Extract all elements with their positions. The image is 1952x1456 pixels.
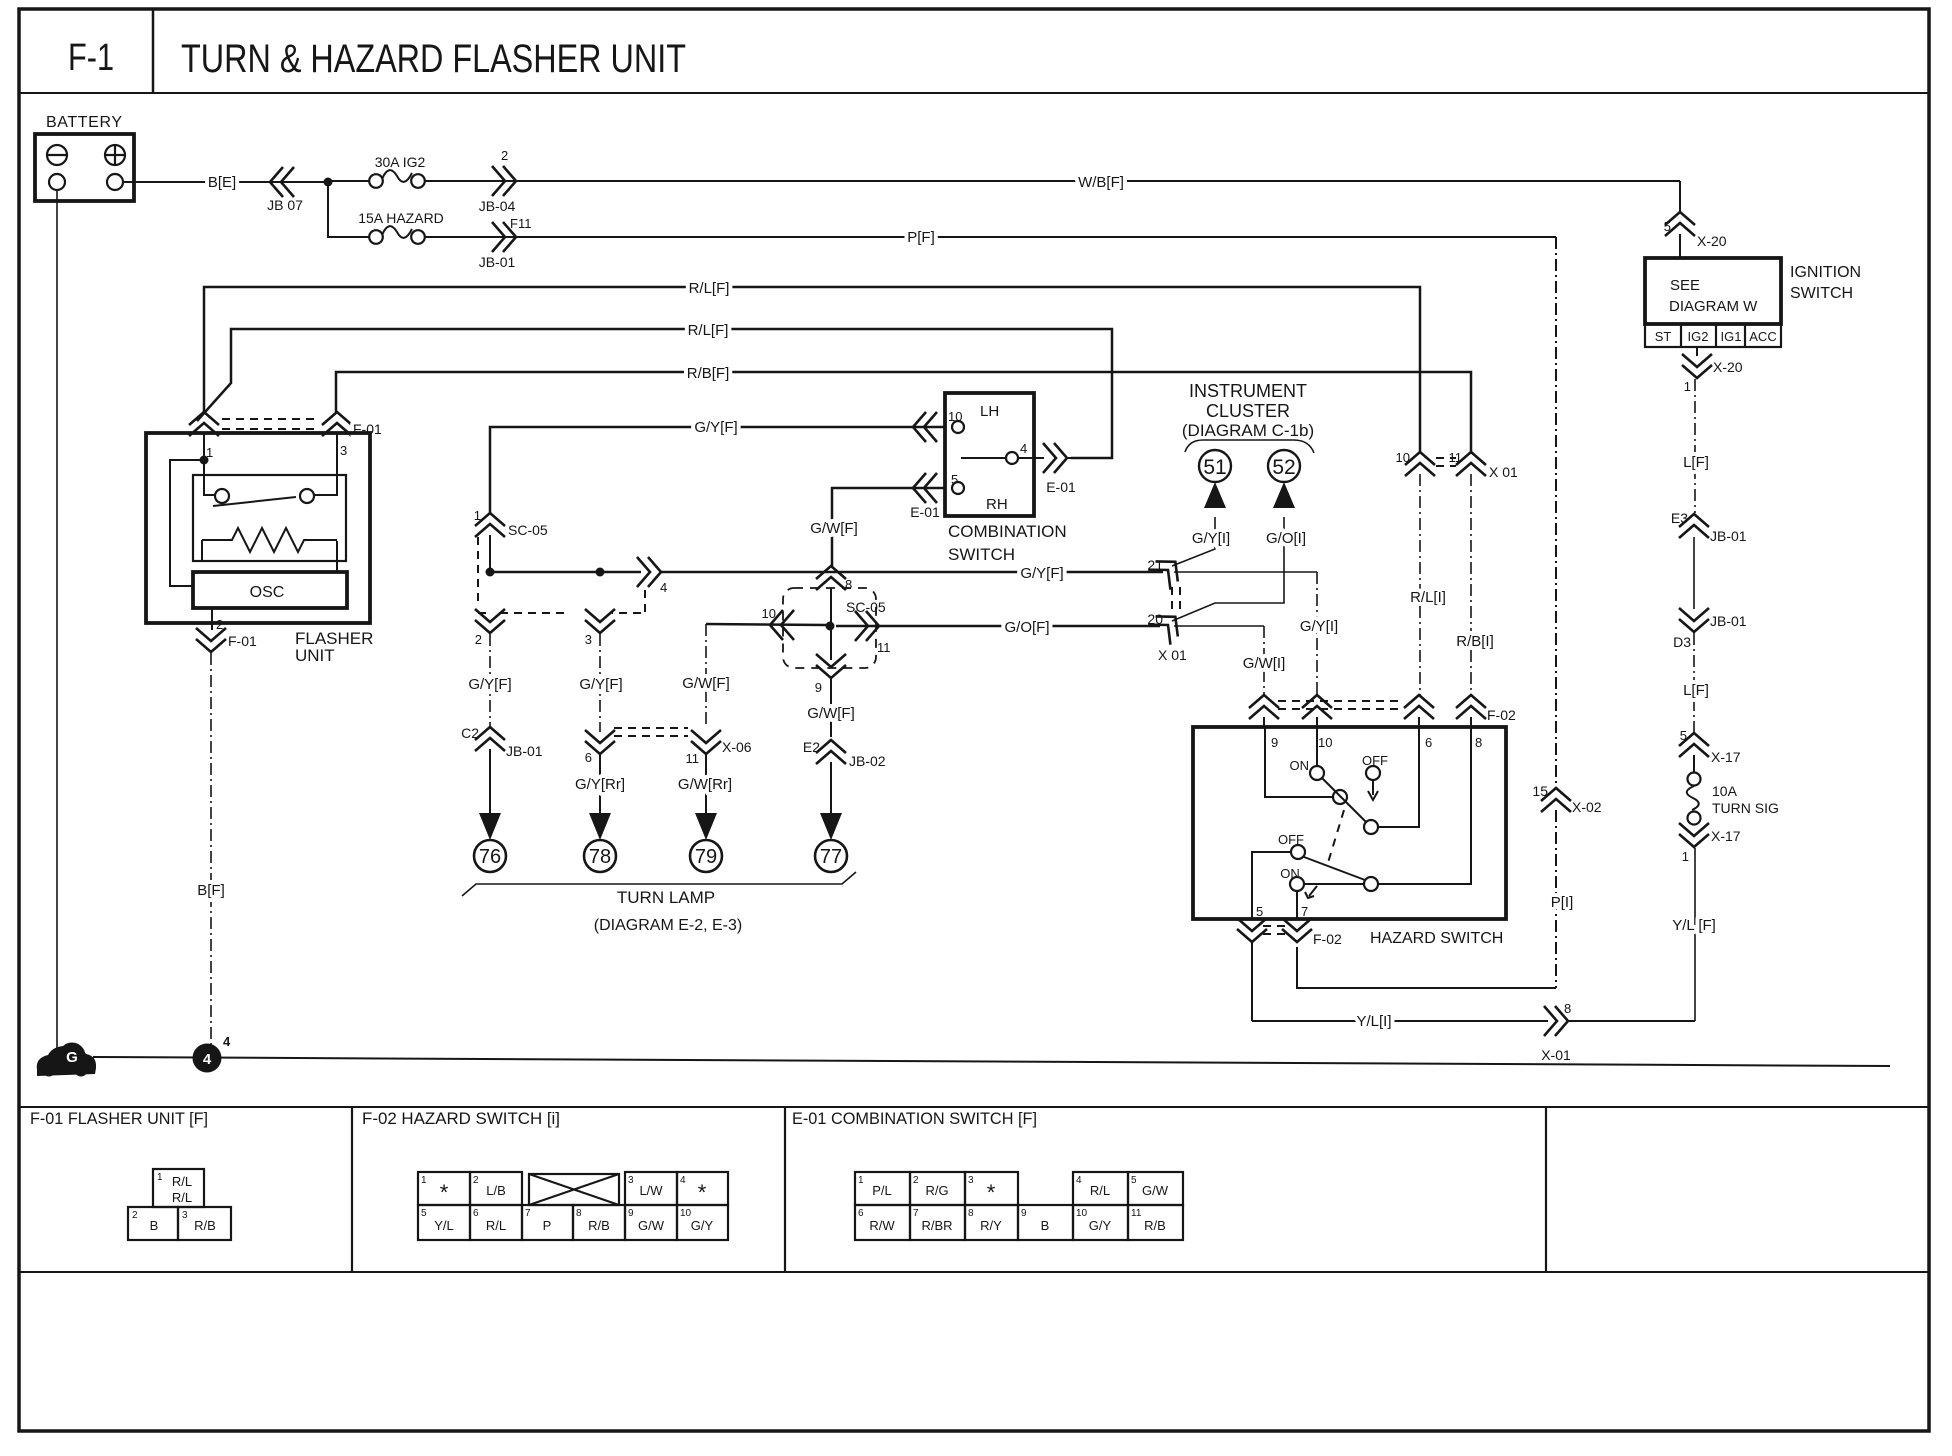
dashed link pins 2-3 [500, 612, 570, 614]
svg-text:9: 9 [1021, 1208, 1027, 1219]
connector JB-04 [492, 166, 516, 196]
svg-text:3: 3 [585, 632, 592, 647]
fuse 30A IG2 [369, 170, 425, 188]
svg-text:1: 1 [858, 1175, 864, 1186]
svg-text:R/L[F]: R/L[F] [688, 322, 729, 339]
E-01 connector pin10 cell [1073, 1205, 1128, 1240]
wire P drop to hazard switch [1555, 237, 1557, 788]
svg-text:5: 5 [1131, 1175, 1137, 1186]
F-01 connector pin3 cell [178, 1207, 231, 1240]
wire pin4 out [1018, 457, 1044, 459]
svg-text:R/B: R/B [588, 1218, 610, 1233]
svg-text:G/Y[F]: G/Y[F] [694, 419, 737, 436]
svg-text:10: 10 [1076, 1208, 1088, 1219]
connector JB 07 [270, 167, 294, 197]
wire G/Y[Rr] to lamp 78 [599, 755, 601, 814]
svg-text:7: 7 [1301, 904, 1308, 919]
hazard switch SW box [1193, 727, 1506, 919]
relay contact right [300, 489, 314, 503]
wire pin9 stub [1263, 717, 1265, 727]
svg-text:SWITCH: SWITCH [948, 545, 1015, 564]
wire pin1 to relay contact [204, 433, 214, 495]
svg-text:R/L[F]: R/L[F] [689, 280, 730, 297]
svg-text:G/O[I]: G/O[I] [1266, 530, 1306, 547]
comb switch wiper line [961, 457, 1005, 459]
node lamp 76 [474, 840, 506, 872]
label IGNITION SWITCH [1790, 264, 1861, 302]
wire pin5 to Y/L[I] [1251, 943, 1253, 1021]
dashed link pins 5-7 [1263, 926, 1287, 934]
connector 10 X-01 upper [1405, 452, 1435, 476]
wire G/Y[I] diagonal to cluster 51 [1172, 517, 1215, 566]
svg-text:(DIAGRAM C-1b): (DIAGRAM C-1b) [1182, 421, 1314, 440]
wire G/O[I] diagonal to cluster 52 [1172, 517, 1284, 621]
E-01 connector pin5 cell [1128, 1172, 1183, 1205]
svg-text:4: 4 [660, 580, 667, 595]
connector 5 X-20 [1665, 212, 1695, 236]
flasher relay box [193, 475, 346, 561]
indicator lamp 52 [1268, 450, 1300, 482]
wire Y/L[I] to fuse column [1567, 1020, 1695, 1022]
svg-text:*: * [698, 1180, 707, 1205]
wire comb pin5 down to splice [832, 488, 945, 566]
svg-text:P[F]: P[F] [907, 229, 935, 246]
svg-text:*: * [440, 1180, 449, 1205]
F-02 connector pin7 cell [522, 1205, 573, 1240]
wire pin4 to R/L riser [1066, 457, 1112, 459]
svg-text:JB-02: JB-02 [849, 753, 886, 769]
svg-text:F-02 HAZARD SWITCH [i]: F-02 HAZARD SWITCH [i] [362, 1109, 560, 1128]
dashed connector guide left [478, 537, 492, 613]
table divider 3 [1545, 1107, 1547, 1272]
dashed link 21-20 [1172, 587, 1180, 612]
connector F-02 pin7 chevron [1282, 918, 1312, 942]
wire to splice bus [489, 535, 491, 572]
hazard contact ON bottom [1290, 877, 1304, 891]
hazard contact top-end [1364, 820, 1378, 834]
ground line [93, 1057, 1890, 1066]
svg-text:1: 1 [474, 508, 481, 523]
hazard contact OFF top [1366, 766, 1380, 780]
header divider [152, 9, 155, 93]
svg-text:G/W[I]: G/W[I] [1243, 655, 1286, 672]
turn lamp bracket [462, 872, 856, 896]
svg-text:P/L: P/L [872, 1183, 892, 1198]
wire resistor left lead [201, 540, 203, 560]
connector F-02 pin9 chevron [1249, 695, 1279, 719]
E-01 connector pin2 cell [910, 1172, 965, 1205]
oscillator OSC box [193, 572, 347, 608]
connector pin3 chevron [585, 609, 615, 633]
connector 21 X-01 [1148, 552, 1186, 590]
svg-text:2: 2 [501, 148, 508, 163]
hazard bottom arm [1304, 857, 1365, 880]
wire branch to hazard fuse [328, 182, 369, 237]
dashed link 6 to X-06 [614, 728, 688, 736]
svg-text:5: 5 [421, 1208, 427, 1219]
svg-text:B[F]: B[F] [197, 882, 225, 899]
svg-text:2: 2 [473, 1175, 479, 1186]
table divider 2 [784, 1107, 786, 1272]
wire R/B[F] flasher pin3 to hazard pin8 [336, 372, 1471, 454]
svg-text:8: 8 [1475, 735, 1482, 750]
wire into fuse [1693, 755, 1695, 772]
connector 1 SC-05 [475, 513, 505, 537]
fuse 15A HAZARD [369, 226, 425, 244]
svg-text:6: 6 [585, 750, 592, 765]
F-02 connector pin9 cell [625, 1205, 677, 1240]
svg-text:R/BR: R/BR [921, 1218, 952, 1233]
svg-text:SWITCH: SWITCH [1790, 285, 1853, 302]
svg-text:X-01: X-01 [1541, 1047, 1571, 1063]
wire B[F] flasher ground lead [210, 653, 212, 1047]
svg-text:(DIAGRAM E-2, E-3): (DIAGRAM E-2, E-3) [594, 917, 742, 934]
instrument cluster brace [1185, 440, 1314, 453]
wire pin10 internal [1316, 727, 1318, 765]
svg-text:L/B: L/B [486, 1183, 506, 1198]
F-02 connector pin5 cell [418, 1205, 470, 1240]
svg-text:JB-01: JB-01 [506, 743, 543, 759]
wire OSC to pin 2 [211, 608, 213, 630]
svg-text:X-02: X-02 [1572, 799, 1602, 815]
arrow to 79 [695, 813, 717, 840]
wire ON to end bottom [1304, 883, 1364, 885]
node lamp 78 [584, 840, 616, 872]
svg-text:X-17: X-17 [1711, 828, 1741, 844]
connector F-02 pin8 chevron [1456, 695, 1486, 719]
wire G/W[Rr] to lamp 79 [705, 755, 707, 814]
svg-text:E-01 COMBINATION SWITCH [F]: E-01 COMBINATION SWITCH [F] [792, 1109, 1037, 1128]
svg-text:3: 3 [340, 443, 347, 458]
battery box [35, 134, 134, 201]
svg-text:F-1: F-1 [68, 37, 114, 79]
svg-text:2: 2 [475, 632, 482, 647]
svg-text:G/Y[I]: G/Y[I] [1192, 530, 1230, 547]
svg-text:P: P [543, 1218, 552, 1233]
svg-text:UNIT: UNIT [295, 646, 335, 665]
svg-text:G/O[F]: G/O[F] [1005, 619, 1050, 636]
svg-text:1: 1 [157, 1172, 163, 1183]
svg-text:51: 51 [1203, 456, 1226, 479]
F-02 connector pin1 cell [418, 1172, 470, 1205]
header band bottom rule [19, 92, 1929, 94]
arrow to 77 [820, 813, 842, 840]
wire G/Y[F] front left turn [489, 634, 491, 727]
svg-text:DIAGRAM W: DIAGRAM W [1669, 298, 1758, 315]
svg-text:E2: E2 [803, 739, 820, 755]
svg-text:F11: F11 [510, 216, 531, 231]
svg-text:R/L: R/L [172, 1174, 192, 1189]
svg-text:G/W[F]: G/W[F] [682, 675, 730, 692]
svg-text:1: 1 [1684, 379, 1691, 394]
E-01 connector pin7 cell [910, 1205, 965, 1240]
svg-text:R/B: R/B [194, 1218, 216, 1233]
wire pin9 internal [1265, 727, 1333, 797]
connector X-17 1 [1679, 823, 1709, 847]
E-01 connector pin4 cell [1073, 1172, 1128, 1205]
svg-text:JB-04: JB-04 [479, 198, 516, 214]
svg-text:R/W: R/W [869, 1218, 895, 1233]
svg-text:8: 8 [576, 1208, 582, 1219]
connector 11 X-06 [691, 730, 721, 754]
svg-text:INSTRUMENT: INSTRUMENT [1189, 381, 1307, 401]
svg-text:F-02: F-02 [1313, 931, 1342, 947]
svg-text:X-17: X-17 [1711, 749, 1741, 765]
battery negative terminal symbol [47, 145, 67, 165]
connector 20 X-01 [1148, 607, 1186, 645]
battery positive terminal symbol [105, 145, 125, 165]
wire pin8 stub [1470, 717, 1472, 727]
svg-text:B: B [150, 1218, 159, 1233]
wire L[F] upper [1694, 379, 1696, 513]
svg-text:SEE: SEE [1670, 277, 1700, 294]
svg-text:1: 1 [421, 1175, 427, 1186]
connector 6 chevron [585, 730, 615, 754]
svg-text:11: 11 [877, 640, 891, 655]
hazard contact OFF bottom [1291, 845, 1305, 859]
svg-text:X 01: X 01 [1158, 647, 1187, 663]
svg-text:5: 5 [1256, 904, 1263, 919]
wire G/Y[I] to hazard pin10 [1174, 571, 1317, 573]
svg-text:E-01: E-01 [1046, 479, 1076, 495]
arrow into 51 [1204, 482, 1226, 508]
svg-text:9: 9 [815, 680, 822, 695]
svg-text:CLUSTER: CLUSTER [1206, 401, 1290, 421]
svg-text:R/L[I]: R/L[I] [1410, 589, 1446, 606]
pin circle 10 [952, 421, 964, 433]
svg-text:L[F]: L[F] [1683, 682, 1709, 699]
svg-text:77: 77 [820, 846, 842, 868]
connector 10 chevron [770, 610, 794, 640]
F-02 connector pin8 cell [573, 1205, 625, 1240]
svg-text:JB-01: JB-01 [479, 254, 516, 270]
node splice mid [596, 568, 605, 577]
hazard top arm [1322, 778, 1366, 822]
wire P[F] fuse to hazard switch [425, 236, 1556, 238]
E-01 connector pin6 cell [855, 1205, 910, 1240]
F-01 connector pin2 cell [128, 1207, 178, 1240]
wire pin6 stub [1418, 717, 1420, 727]
svg-text:R/B[F]: R/B[F] [687, 365, 730, 382]
svg-text:ON: ON [1280, 866, 1300, 881]
svg-text:IGNITION: IGNITION [1790, 264, 1861, 281]
svg-text:G/Y[F]: G/Y[F] [1020, 565, 1063, 582]
svg-text:JB 07: JB 07 [267, 197, 303, 213]
wire into fuse 30A [328, 180, 369, 182]
svg-text:BATTERY: BATTERY [46, 114, 122, 131]
svg-text:P[I]: P[I] [1551, 894, 1574, 911]
svg-text:OSC: OSC [250, 584, 285, 601]
wire splice to E2 [830, 679, 832, 737]
connector JB-01 F11 [492, 222, 516, 252]
wire L[F] lower [1693, 633, 1695, 732]
wire G/Y[F] bus to connector 21 [661, 571, 1163, 574]
svg-text:G/Y[F]: G/Y[F] [579, 676, 622, 693]
F-02 connector pin10 cell [677, 1205, 728, 1240]
hazard contact ON top [1310, 766, 1324, 780]
F-02 connector pin3 cell [625, 1172, 677, 1205]
svg-text:76: 76 [479, 846, 501, 868]
hazard contact mid [1333, 790, 1347, 804]
svg-text:6: 6 [1425, 735, 1432, 750]
fuse 10A TURN SIG [1687, 773, 1701, 825]
svg-text:R/L: R/L [486, 1218, 506, 1233]
svg-text:11: 11 [686, 751, 700, 766]
wire splice vertical [830, 588, 832, 660]
svg-text:L[F]: L[F] [1683, 454, 1709, 471]
OFF arrow [1368, 780, 1378, 800]
svg-text:ST: ST [1655, 329, 1672, 344]
wire pin5 internal [1252, 852, 1291, 919]
wire G/W[F] branch col3 [705, 624, 707, 727]
svg-text:8: 8 [968, 1208, 974, 1219]
svg-text:7: 7 [525, 1208, 531, 1219]
svg-text:X-20: X-20 [1697, 233, 1727, 249]
node splice left [486, 568, 495, 577]
svg-text:6: 6 [858, 1208, 864, 1219]
wire G/Y[F] flasher out to combination switch pin10 [490, 427, 945, 514]
F-01 connector pin1 cell [153, 1169, 204, 1207]
svg-text:*: * [987, 1180, 996, 1205]
svg-text:SC-05: SC-05 [508, 522, 548, 538]
svg-text:3: 3 [968, 1175, 974, 1186]
wire R/L[F] flasher pin1 to hazard [204, 287, 1420, 452]
svg-text:R/B[I]: R/B[I] [1456, 633, 1494, 650]
svg-text:2: 2 [132, 1210, 138, 1221]
svg-text:8: 8 [845, 577, 852, 592]
svg-text:ACC: ACC [1749, 329, 1776, 344]
connector F-02 pin6 chevron [1404, 695, 1434, 719]
connector F-01 pin1 chevron [189, 412, 219, 436]
svg-text:52: 52 [1272, 456, 1295, 479]
wire IG2 out [1696, 347, 1698, 356]
svg-text:1: 1 [1682, 849, 1689, 864]
wire P[I] to hazard pin 7 [1555, 810, 1557, 988]
svg-text:E-01: E-01 [910, 504, 940, 520]
node lamp 77 [815, 840, 847, 872]
svg-text:5: 5 [1680, 728, 1687, 743]
ignition switch box [1645, 258, 1781, 324]
wire bottom-end to pin8 [1378, 727, 1471, 884]
svg-text:8: 8 [1564, 1001, 1571, 1016]
connector E-01 pin10 chevron [913, 412, 937, 442]
wire pin1 to OSC loop [170, 460, 204, 586]
svg-text:6: 6 [473, 1208, 479, 1219]
connector E2 JB-02 [816, 740, 846, 764]
svg-text:TURN LAMP: TURN LAMP [617, 888, 715, 907]
arrow to 78 [589, 813, 611, 840]
E-01 connector pin11 cell [1128, 1205, 1183, 1240]
arrow into 52 [1273, 482, 1295, 508]
label FLASHER UNIT [295, 629, 373, 665]
F-02 connector pin2 cell [470, 1172, 522, 1205]
wire R/L[I] [1419, 474, 1421, 696]
svg-text:COMBINATION: COMBINATION [948, 522, 1067, 541]
F-02 crossed cell [529, 1174, 619, 1205]
connector 5 X-17 [1679, 733, 1709, 757]
svg-text:Y/L[I]: Y/L[I] [1356, 1013, 1391, 1030]
svg-text:G/W[F]: G/W[F] [807, 705, 855, 722]
wire B[E] battery positive feed [123, 181, 328, 183]
battery positive post [107, 174, 123, 190]
svg-text:R/Y: R/Y [980, 1218, 1002, 1233]
svg-text:TURN SIG: TURN SIG [1712, 800, 1779, 816]
E-01 connector pin8 cell [965, 1205, 1018, 1240]
wire to lamp 77 [830, 762, 832, 814]
svg-text:X-06: X-06 [722, 739, 752, 755]
svg-text:4: 4 [1020, 441, 1027, 456]
connector X-20 1 [1682, 354, 1712, 378]
svg-text:F-01 FLASHER UNIT [F]: F-01 FLASHER UNIT [F] [30, 1109, 208, 1128]
svg-text:G/Y[I]: G/Y[I] [1300, 618, 1338, 635]
connector E-01 pin4 chevron [1043, 443, 1067, 473]
svg-text:IG1: IG1 [1721, 329, 1742, 344]
svg-text:4: 4 [1076, 1175, 1082, 1186]
battery negative post [49, 174, 65, 190]
hazard mechanical link dashed [1327, 810, 1344, 866]
ground symbol G car [37, 1043, 96, 1077]
svg-text:30A IG2: 30A IG2 [375, 154, 426, 170]
svg-text:X-20: X-20 [1713, 359, 1743, 375]
connector 11 chevron [855, 611, 879, 641]
E-01 connector pin3 cell [965, 1172, 1018, 1205]
svg-text:IG2: IG2 [1688, 329, 1709, 344]
svg-text:9: 9 [628, 1208, 634, 1219]
svg-text:5: 5 [1664, 219, 1671, 234]
svg-text:3: 3 [628, 1175, 634, 1186]
svg-text:G/Y[F]: G/Y[F] [468, 676, 511, 693]
connector F-02 pin10 chevron [1302, 695, 1332, 719]
svg-text:D3: D3 [1673, 634, 1691, 650]
wire G/Y[F] front right col2 [599, 634, 601, 732]
svg-text:10: 10 [762, 606, 776, 621]
svg-text:G/Y: G/Y [691, 1218, 714, 1233]
wire R/B[I] [1470, 474, 1472, 696]
wire G/O[F] to connector 20 [836, 625, 1160, 628]
svg-text:R/L: R/L [1090, 1183, 1110, 1198]
table mid rule [19, 1271, 1929, 1273]
relay switch arm [213, 497, 296, 506]
connector 8 X-01 [1544, 1006, 1568, 1036]
svg-text:2: 2 [913, 1175, 919, 1186]
connector E-01 pin5 chevron [913, 473, 937, 503]
svg-text:G/W: G/W [638, 1218, 665, 1233]
svg-text:R/L: R/L [172, 1190, 192, 1205]
svg-text:G/W[F]: G/W[F] [810, 520, 858, 537]
connector 15 X-02 [1541, 788, 1571, 812]
label SEE DIAGRAM W [1669, 277, 1758, 315]
svg-text:F-02: F-02 [1487, 707, 1516, 723]
svg-text:3: 3 [182, 1210, 188, 1221]
svg-text:10: 10 [1396, 450, 1410, 465]
connector F-02 pin5 chevron [1237, 918, 1267, 942]
svg-text:10A: 10A [1712, 783, 1738, 799]
svg-text:B[E]: B[E] [208, 174, 236, 191]
F-02 connector pin4 cell [677, 1172, 728, 1205]
resistor R flasher [202, 528, 337, 552]
svg-text:F-01: F-01 [228, 633, 257, 649]
svg-text:G/W[Rr]: G/W[Rr] [678, 776, 732, 793]
svg-text:L/W: L/W [639, 1183, 663, 1198]
svg-text:Y/L [F]: Y/L [F] [1672, 917, 1716, 934]
svg-text:G: G [66, 1049, 78, 1066]
svg-text:10: 10 [1318, 735, 1332, 750]
svg-text:21: 21 [1147, 557, 1163, 573]
wire resistor right lead to OSC [336, 541, 338, 572]
wire R/L[F] flasher pin1 to combination switch pin4 [197, 329, 1112, 458]
svg-text:78: 78 [589, 846, 611, 868]
svg-text:R/G: R/G [925, 1183, 948, 1198]
